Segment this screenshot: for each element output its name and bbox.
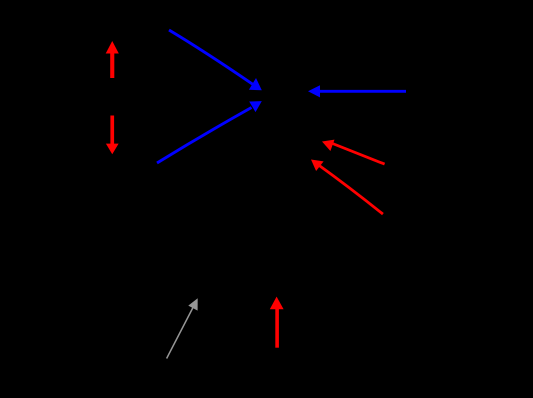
gray arrow: from lower-left label pointing up-right	[167, 298, 198, 358]
blue arrow 2: from lower-left label to center	[157, 101, 262, 163]
red arrow C: bottom center pointing up	[270, 297, 284, 348]
red double-arrow upper half (up arrow)	[106, 41, 119, 78]
blue arrow 1: from upper-left label to center	[169, 30, 262, 90]
red arrow A: from right label to center (upper)	[322, 140, 385, 165]
blue arrow 3: horizontal from right label pointing left	[308, 85, 406, 97]
red double-arrow lower half (down arrow)	[106, 116, 119, 155]
red arrow B: from right label to center (lower)	[311, 160, 383, 215]
